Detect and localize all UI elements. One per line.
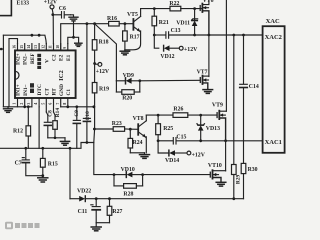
zener diode VD13 [197,115,220,141]
watermark logo [5,222,40,229]
svg-text:IN2+: IN2+ [15,53,21,65]
svg-text:VT8: VT8 [133,116,144,122]
transistor VT8 [133,115,147,153]
node VD10 right [141,173,144,176]
wire drive line pin10 to R16 [61,24,109,51]
MOSFET VT7 [197,70,209,90]
node R25 top [157,114,160,117]
svg-text:1: 1 [13,103,17,105]
capacitor C6 [53,6,74,18]
wire +12V down to IC pin 11 [52,9,53,44]
diode VD22 [70,189,96,202]
resistor R29 [232,35,242,199]
svg-text:VT6: VT6 [203,0,214,4]
node R19 bottom [92,105,95,108]
node C10 top [86,22,89,25]
svg-text:VD10: VD10 [121,167,135,173]
svg-text:R17: R17 [130,34,140,40]
diode VD10 [114,167,143,177]
svg-text:XAC: XAC [266,18,280,25]
ground (VT7) [203,90,213,94]
svg-text:C7: C7 [15,161,22,167]
node C11 [95,197,98,200]
ground (C8/R14) [60,138,69,145]
node C14 top [242,34,245,37]
node pin8 [66,105,69,108]
svg-text:IC2: IC2 [58,69,65,80]
node R17 top [124,22,127,25]
svg-text:E133: E133 [17,1,30,7]
svg-text:R24: R24 [133,140,143,146]
svg-text:R14: R14 [55,108,61,118]
resistor R22 [169,1,201,11]
resistor R26 [173,106,217,117]
svg-text:IN1+: IN1+ [16,84,22,96]
IC2 pin stubs bottom [18,98,68,112]
svg-text:R18: R18 [99,39,109,45]
node VD11 top [193,7,196,10]
svg-text:R26: R26 [173,106,183,112]
resistor R20 [116,81,139,102]
svg-text:R25: R25 [163,126,173,132]
IC U2 TL494 body [15,50,76,98]
svg-text:C11: C11 [78,209,88,215]
svg-text:R21: R21 [159,20,169,26]
svg-text:C15: C15 [176,135,186,141]
svg-text:13: 13 [34,45,38,49]
svg-text:2: 2 [20,103,24,105]
wire XAC1 feed [201,140,263,142]
resistor R24 [128,129,145,153]
svg-text:VD11: VD11 [176,20,190,26]
wire VD10 node to VT10 gate [143,174,210,176]
svg-text:R29: R29 [236,175,242,185]
svg-text:3: 3 [27,103,31,105]
node pin14 [31,34,34,37]
ground (C6) [69,17,78,21]
wire VT5 collector to R21/R22 [141,8,170,10]
diode VD12 [154,35,179,60]
wire pin4 to rail [38,107,40,149]
resistor R16 [107,16,133,26]
wire diagonal to VD9 row [96,25,116,81]
ground (VT8/R24) [140,153,150,159]
svg-text:V: V [44,59,50,63]
svg-text:5: 5 [41,103,45,105]
node R27 [108,197,111,200]
capacitor C14 [240,35,259,163]
resistor R14 [53,108,61,138]
resistor R21 [152,9,169,35]
+12V terminal (top, feeding IC pin 11/12) [44,0,58,9]
wire long vertical supply right [225,0,227,111]
wire R19 line down to R23 and VD10 [94,107,114,175]
svg-text:R27: R27 [112,209,122,215]
svg-text:VD22: VD22 [77,189,91,195]
+12V terminal (VD12) [179,46,198,53]
svg-text:15: 15 [20,45,24,49]
transistor VT5 [125,9,141,50]
resistor R19 [92,64,109,107]
node VD22 branch [69,147,72,150]
node VD13 bottom [199,139,202,142]
node VD13 top [199,114,202,117]
node R24 top [129,128,132,131]
wire left tie down to ground bus [2,35,4,107]
wire VD9 node to VT7 gate [140,79,200,82]
svg-text:R20: R20 [122,96,132,102]
resistor R30 [241,163,257,198]
svg-text:R28: R28 [123,191,133,197]
svg-text:R15: R15 [48,161,58,167]
svg-text:E1: E1 [66,54,72,61]
node VD10 left [113,173,116,176]
+12V terminal (mid) [95,63,110,75]
resistor R23 [112,121,138,131]
svg-text:11: 11 [49,45,53,49]
svg-text:C6: C6 [59,6,66,12]
wire from C6 ground node down to pin 9 node [73,22,75,38]
svg-text:XAC2: XAC2 [265,34,282,41]
svg-text:9: 9 [63,47,67,49]
node [54,136,57,139]
node pin9 tie [72,36,75,39]
svg-text:6: 6 [49,103,53,105]
svg-text:4: 4 [34,103,38,105]
wire bottom bus [96,198,243,200]
node R12 top [27,105,30,108]
node VD11 bottom [193,34,196,37]
MOSFET VT9 [212,102,227,141]
node C10 bottom [86,141,89,144]
svg-text:C10: C10 [85,111,91,121]
node R18 bottom / +12V [93,62,96,65]
node R15 [41,147,44,150]
node R29 bottom [232,197,235,200]
MOSFET VT6 [200,0,213,35]
wire C11/R27 join [96,222,109,224]
svg-text:VD14: VD14 [165,158,179,164]
wire VT9 source to VT10 drain [225,141,227,171]
svg-text:VD13: VD13 [206,126,220,132]
svg-text:VT10: VT10 [208,163,222,169]
node R23 branch [93,128,96,131]
svg-text:IN1–: IN1– [23,84,29,96]
wire pin16 loop [9,39,18,107]
svg-text:VD12: VD12 [160,54,174,60]
wire ground bus pins 1-3 [3,106,32,108]
node R18 top [93,22,96,25]
zener diode VD11 [176,9,197,35]
svg-text:DTC: DTC [37,84,43,95]
svg-text:C2: C2 [52,54,58,61]
capacitor C7 [15,148,43,175]
pin numbers 1-8 [13,103,67,105]
ground (IC input bus) [4,107,13,113]
capacitor C9 [73,107,80,149]
wire pins 14,13,12 tie (REF/OC/VCC) [3,35,46,43]
partial component box top-left corner [0,0,11,16]
svg-text:R12: R12 [13,129,23,135]
wire R23 feed [95,128,114,130]
IC2 pin labels bottom row [16,84,72,96]
connector XAC [263,18,285,153]
node pin2 [23,105,26,108]
capacitor C8 [44,110,53,138]
node pin13 [38,34,41,37]
svg-text:E2: E2 [59,54,65,61]
svg-text:+12V: +12V [192,152,206,158]
MOSFET VT10 [208,163,226,182]
wire XAC2 feed [195,34,263,36]
svg-text:XAC1: XAC1 [265,139,282,146]
svg-text:8: 8 [63,103,67,105]
resistor R17 [123,24,140,50]
svg-text:7: 7 [56,103,60,105]
wire VD22 branch down [69,148,71,198]
svg-text:C14: C14 [249,84,259,90]
ground (VT5/R17) [120,50,129,55]
resistor R15 [40,148,57,177]
ground (pin 9) [75,43,82,46]
svg-text:10: 10 [56,45,60,49]
resistor R27 [107,199,122,223]
svg-text:C1: C1 [66,89,72,96]
node R15/C7 bottom [41,174,44,177]
IC2 pin stubs top [18,44,68,51]
wire pin7/pin8 bus [61,106,94,108]
capacitor C10 [83,24,91,143]
node VT9 source / VT10 drain [224,139,227,142]
pin numbers 16-9 [13,45,67,49]
ground (VT10) [216,182,226,186]
node R25/C15 [157,139,160,142]
svg-text:VT9: VT9 [212,102,223,108]
svg-text:14: 14 [27,45,31,49]
svg-text:C13: C13 [171,28,181,34]
svg-text:R19: R19 [99,86,109,92]
capacitor C15 [158,135,201,144]
resistor R18 [92,24,108,64]
node R29 top [232,34,235,37]
svg-text:C8: C8 [48,110,54,117]
svg-text:RT: RT [52,88,58,96]
svg-text:+12V: +12V [184,47,198,53]
node C13 left [153,34,156,37]
capacitor C13 [154,28,194,38]
wire left edge stub [0,48,3,50]
svg-text:+12V: +12V [96,69,110,75]
node C7 [24,147,27,150]
wire C8/R14 ground bus [48,137,65,139]
svg-text:R30: R30 [248,167,258,173]
CJK label blocks pin3 feedback [30,83,34,93]
svg-text:REF: REF [30,53,36,64]
IC2 pin labels top row [15,53,72,65]
svg-text:VT5: VT5 [127,12,138,18]
+12V terminal (VD14) [187,151,206,158]
node C9 top [75,105,78,108]
resistor R28 [114,175,143,198]
ground (C11/R27) [91,223,101,231]
diode VD9 [116,73,139,84]
ground (C7/R15) [38,178,48,182]
svg-text:GND: GND [59,84,65,96]
diode VD14 [158,141,187,164]
node VT6 source [208,34,211,37]
node R21 top [153,7,156,10]
wire pin 9 loop [68,37,79,43]
resistor R25 [156,115,174,141]
CJK label blocks pin13 output-control [37,54,41,69]
wire control bus below IC (rail) [0,143,94,149]
wire VT6 source to VT7 drain [208,35,210,77]
svg-text:VD9: VD9 [123,73,134,79]
wire VT8 collector bus [146,114,173,116]
capacitor C11 [78,199,101,223]
node left edge stub [0,48,3,51]
svg-text:IN2–: IN2– [23,53,29,65]
node junction [51,13,54,16]
svg-text:12: 12 [41,45,45,49]
node VD9/R20 right [138,79,141,82]
resistor R12 [13,107,31,149]
svg-text:CT: CT [44,88,50,96]
svg-text:16: 16 [13,45,17,49]
